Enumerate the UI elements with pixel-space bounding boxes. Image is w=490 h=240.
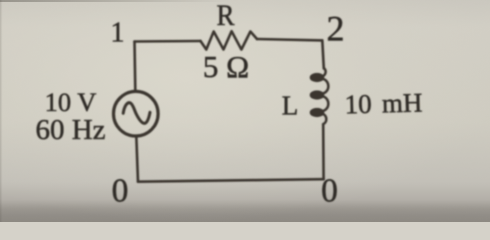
- svg-text:2: 2: [327, 9, 345, 49]
- wire: right vertical upper (node2 to inductor): [322, 40, 324, 68]
- svg-text:L: L: [282, 91, 299, 121]
- wire: left vertical upper (node1 to source): [133, 42, 136, 91]
- svg-text:0: 0: [112, 173, 129, 210]
- wire: right vertical lower (inductor to node0): [322, 124, 325, 179]
- wire: bottom (node0 left to node0 right): [138, 179, 324, 182]
- svg-text:60 Hz: 60 Hz: [35, 114, 105, 146]
- left photo edge: [0, 0, 3, 222]
- svg-text:10 V: 10 V: [45, 87, 97, 117]
- svg-text:0: 0: [321, 173, 338, 210]
- svg-text:R: R: [216, 0, 234, 32]
- resistor R: [201, 31, 258, 49]
- svg-text:5 Ω: 5 Ω: [203, 49, 249, 84]
- svg-text:1: 1: [111, 18, 125, 49]
- wire: resistor to node2 corner: [257, 39, 322, 40]
- inductor L coil: [311, 68, 328, 124]
- wire: top, node1 corner to resistor: [135, 40, 201, 43]
- wire: left vertical lower (source to node0): [136, 136, 138, 182]
- AC source V1 circle: [114, 91, 159, 136]
- top photo edge line: [0, 0, 230, 2]
- svg-text:10 mH: 10 mH: [344, 87, 423, 119]
- AC source sine symbol: [123, 103, 150, 124]
